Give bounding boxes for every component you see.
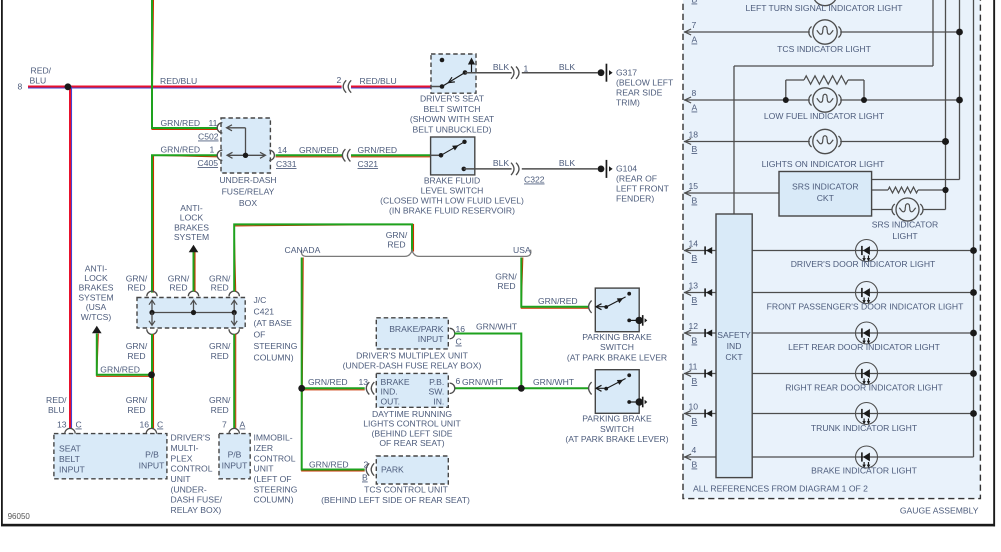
svg-text:CANADA: CANADA (285, 245, 321, 255)
svg-text:UNIT: UNIT (171, 474, 192, 484)
ABS USA arrow (92, 326, 102, 334)
svg-text:BELT UNBUCKLED): BELT UNBUCKLED) (413, 124, 492, 134)
wire row 15 to SRS indicator ckt (684, 192, 779, 194)
svg-text:SWITCH: SWITCH (600, 342, 634, 352)
svg-text:A: A (240, 420, 246, 430)
svg-text:C405: C405 (198, 158, 219, 168)
svg-text:(LEFT OF: (LEFT OF (254, 474, 292, 484)
svg-text:DRIVER'S: DRIVER'S (171, 433, 211, 443)
ground at parking brake switch 2 (636, 398, 643, 405)
junction row 7 (956, 29, 963, 36)
junction resistor left (783, 97, 789, 103)
svg-text:7: 7 (692, 20, 697, 30)
svg-text:1: 1 (210, 145, 215, 155)
svg-text:IZER: IZER (254, 443, 274, 453)
wire RED/BLU to seat belt switch (351, 87, 431, 89)
under-dash fuse/relay box (221, 118, 270, 173)
junction row 13 (970, 289, 977, 296)
svg-text:FENDER): FENDER) (616, 194, 654, 204)
svg-text:GRN/RED: GRN/RED (309, 460, 349, 470)
ground stub (629, 401, 636, 403)
svg-text:(UNDER-DASH FUSE RELAY BOX): (UNDER-DASH FUSE RELAY BOX) (343, 361, 482, 371)
anti-lock brakes system arrow (189, 245, 199, 253)
pin 14 bump (269, 150, 274, 160)
svg-text:13: 13 (689, 281, 699, 291)
wire GRN/RED J/C to pin 16 (153, 334, 155, 429)
J/C bottom pin bump x=152 (147, 329, 157, 334)
svg-text:USA: USA (513, 245, 531, 255)
wire GRN/RED C321 to brake fluid level switch (351, 156, 431, 158)
svg-text:GRN/RED: GRN/RED (299, 145, 339, 155)
contact left (604, 387, 608, 391)
svg-text:INPUT: INPUT (59, 465, 86, 475)
svg-text:ANTI-: ANTI- (85, 263, 108, 273)
internal wire down (245, 128, 247, 156)
wire RED/BLU vertical drop to pin 13 (71, 87, 73, 430)
switch entry stub (431, 86, 442, 88)
junction SRS resistor (942, 187, 948, 193)
arrowhead (685, 248, 691, 254)
svg-text:LOCK: LOCK (180, 213, 204, 223)
svg-text:OUT.: OUT. (381, 396, 401, 406)
LED lamp trunk indicator light (856, 403, 878, 425)
svg-text:LEVEL SWITCH: LEVEL SWITCH (421, 186, 484, 196)
wire row 18 left of lamp (684, 141, 810, 143)
pin 6 bump (450, 383, 455, 393)
svg-text:SYSTEM: SYSTEM (174, 232, 209, 242)
bus wire row18/resistor/SRS lamp (945, 0, 947, 210)
arrowhead (685, 371, 691, 377)
svg-text:7: 7 (222, 420, 227, 430)
svg-text:14: 14 (278, 145, 288, 155)
junction row 10 (970, 410, 977, 417)
svg-text:RED: RED (211, 405, 229, 415)
wire segment (785, 80, 787, 100)
wire row 12 from safety ckt to bus (752, 332, 974, 334)
inline connector 2 (RED/BLU) (343, 80, 346, 92)
wire segment (872, 189, 888, 191)
switch blade (441, 143, 463, 156)
wire row 11 from safety ckt to bus (752, 373, 974, 375)
diode row 11 (704, 369, 706, 377)
switch entry stub (431, 154, 441, 156)
connector parking brake switch 2 (589, 382, 592, 394)
wire SRS lamp right (923, 209, 946, 211)
wire row 10 from safety ckt to bus (752, 413, 974, 415)
contact upper (462, 140, 466, 144)
wire row 14 to safety ind ckt (684, 250, 716, 252)
junction row 14 (970, 247, 977, 254)
wire row 11 to safety ind ckt (684, 373, 716, 375)
svg-text:16: 16 (456, 324, 466, 334)
LED lamp front passenger's door indicator light (856, 282, 878, 304)
svg-text:TRIM): TRIM) (616, 98, 640, 108)
svg-text:TCS CONTROL UNIT: TCS CONTROL UNIT (364, 485, 448, 495)
arrowhead (685, 454, 691, 460)
inline connector C321 (342, 149, 345, 161)
diode row 13 (704, 288, 706, 296)
svg-text:C331: C331 (276, 159, 297, 169)
internal wire pin 11 (227, 127, 246, 129)
svg-text:4: 4 (692, 445, 697, 455)
svg-text:(REAR OF: (REAR OF (616, 174, 657, 184)
svg-text:C: C (456, 337, 462, 347)
connector pin 2 (366, 463, 369, 475)
wire row 7 right of lamp (840, 31, 959, 33)
diode row 12 (704, 329, 706, 337)
ground at parking brake switch 1 (636, 317, 643, 324)
wire BLK from switch (465, 72, 512, 74)
svg-text:C: C (76, 420, 82, 430)
daytime running lights control unit box (376, 373, 448, 407)
svg-text:RED: RED (169, 283, 187, 293)
svg-text:IN.: IN. (433, 396, 444, 406)
svg-text:C: C (157, 420, 163, 430)
svg-text:J/C: J/C (254, 295, 267, 305)
svg-text:LIGHTS ON INDICATOR LIGHT: LIGHTS ON INDICATOR LIGHT (762, 159, 886, 169)
junction row 12 (970, 330, 977, 337)
lamp low fuel indicator light (813, 88, 837, 112)
svg-text:6: 6 (456, 376, 461, 386)
wire BLK from switch (464, 168, 512, 170)
svg-text:A: A (692, 103, 698, 113)
svg-text:15: 15 (689, 181, 699, 191)
svg-text:BLK: BLK (559, 158, 576, 168)
svg-text:GRN/WHT: GRN/WHT (533, 377, 575, 387)
svg-text:RELAY BOX): RELAY BOX) (171, 505, 222, 515)
svg-text:8: 8 (18, 82, 23, 92)
svg-text:RED: RED (497, 281, 515, 291)
svg-text:RED: RED (127, 351, 145, 361)
svg-text:RIGHT REAR DOOR INDICATOR LIGH: RIGHT REAR DOOR INDICATOR LIGHT (785, 383, 943, 393)
box (1, 524, 995, 527)
wire row 8 right of lamp (840, 99, 959, 101)
svg-text:CONTROL: CONTROL (254, 453, 296, 463)
blade arrowhead (617, 298, 624, 303)
immobilizer control unit box (219, 434, 250, 479)
wire row 10 to safety ind ckt (684, 413, 716, 415)
lamp tcs indicator light (813, 20, 837, 44)
svg-text:ANTI-: ANTI- (180, 203, 203, 213)
arrowhead (685, 97, 691, 103)
svg-text:RED: RED (211, 283, 229, 293)
svg-text:TCS INDICATOR LIGHT: TCS INDICATOR LIGHT (777, 44, 871, 54)
svg-text:GAUGE ASSEMBLY: GAUGE ASSEMBLY (900, 506, 979, 516)
arrowhead (685, 290, 691, 296)
entry stub (596, 306, 606, 308)
svg-text:GRN/: GRN/ (126, 341, 148, 351)
svg-text:GRN/: GRN/ (495, 272, 517, 282)
svg-text:GRN/RED: GRN/RED (308, 377, 348, 387)
switch blade (606, 297, 625, 307)
svg-text:B: B (692, 376, 698, 386)
svg-text:GRN/: GRN/ (386, 230, 408, 240)
svg-text:B: B (692, 253, 698, 263)
svg-text:18: 18 (689, 130, 699, 140)
svg-text:RED: RED (127, 283, 145, 293)
svg-text:SW.: SW. (429, 387, 445, 397)
svg-text:RED: RED (211, 351, 229, 361)
svg-text:GRN/RED: GRN/RED (358, 145, 398, 155)
svg-text:LIGHT: LIGHT (892, 231, 918, 241)
svg-text:CKT: CKT (725, 352, 743, 362)
lamp lights on indicator light (813, 129, 837, 153)
contact left (604, 305, 608, 309)
svg-text:BRAKE FLUID: BRAKE FLUID (424, 176, 480, 186)
contact lower (627, 400, 631, 404)
ground G104 (598, 166, 605, 173)
J/C bottom pin bump x=234.2 (229, 329, 239, 334)
J/C top pin bump x=193.5 (188, 291, 198, 296)
svg-text:2: 2 (364, 460, 369, 470)
bus wire row7/row8/SRS ckt (959, 0, 961, 180)
resistor (888, 187, 918, 193)
svg-text:LOCK: LOCK (84, 273, 108, 283)
svg-text:RED: RED (127, 405, 145, 415)
pin 11 bump (217, 123, 222, 133)
brake fluid level switch box (431, 137, 475, 175)
svg-text:(BEHIND LEFT SIDE: (BEHIND LEFT SIDE (371, 428, 452, 438)
svg-text:GRN/: GRN/ (209, 341, 231, 351)
svg-text:1: 1 (524, 64, 529, 74)
svg-text:13: 13 (57, 420, 67, 430)
contact left (439, 153, 444, 158)
ground G317 (598, 69, 605, 76)
diode row 14 (704, 246, 706, 254)
unused contact (440, 58, 445, 63)
svg-text:BLK: BLK (493, 158, 510, 168)
wire SRS lamp left (872, 209, 893, 211)
LED lamp left rear door indicator light (856, 322, 878, 344)
svg-text:A: A (692, 35, 698, 45)
svg-text:BRAKE: BRAKE (381, 377, 410, 387)
switch blade (606, 379, 625, 389)
pin 7 bump (229, 428, 239, 433)
svg-text:B: B (692, 460, 698, 470)
svg-text:P.B.: P.B. (429, 377, 444, 387)
svg-text:B: B (692, 0, 698, 5)
svg-text:LOW FUEL INDICATOR LIGHT: LOW FUEL INDICATOR LIGHT (764, 111, 885, 121)
J/C arrow down (231, 321, 237, 326)
svg-text:ALL REFERENCES FROM DIAGRAM 1: ALL REFERENCES FROM DIAGRAM 1 OF 2 (693, 484, 868, 494)
wire segment (863, 80, 865, 100)
feed wire down to safety ind ckt (733, 66, 735, 214)
SRS indicator ckt box (779, 172, 872, 217)
svg-text:(SHOWN WITH SEAT: (SHOWN WITH SEAT (410, 114, 495, 124)
svg-text:LEFT TURN SIGNAL INDICATOR LIG: LEFT TURN SIGNAL INDICATOR LIGHT (745, 3, 903, 13)
svg-text:BLU: BLU (30, 76, 47, 86)
svg-text:FUSE/RELAY: FUSE/RELAY (222, 187, 275, 197)
arrowhead (685, 190, 691, 196)
inline connector 1 (BLK) (511, 67, 514, 79)
svg-text:STEERING: STEERING (254, 341, 298, 351)
svg-text:13: 13 (359, 377, 369, 387)
svg-text:SWITCH: SWITCH (600, 424, 634, 434)
wire segment (848, 79, 864, 81)
blade arrowhead (448, 77, 455, 82)
resistor (804, 76, 848, 84)
svg-text:PARKING BRAKE: PARKING BRAKE (582, 332, 652, 342)
svg-text:STEERING: STEERING (254, 484, 298, 494)
wire GRN/RED top to C502 pin 11 (152, 0, 218, 130)
svg-text:BELT: BELT (59, 454, 81, 464)
wire GRN/RED C405 pin 1 down to J/C C421 (154, 155, 218, 292)
svg-text:B: B (362, 473, 368, 483)
J/C internal stub up (193, 301, 195, 313)
entry stub (596, 387, 606, 389)
svg-text:10: 10 (689, 402, 699, 412)
J/C internal bus (152, 312, 234, 314)
wire segment (786, 79, 804, 81)
svg-text:16: 16 (140, 420, 150, 430)
svg-text:LIGHTS CONTROL UNIT: LIGHTS CONTROL UNIT (363, 419, 461, 429)
svg-text:(IN BRAKE FLUID RESERVOIR): (IN BRAKE FLUID RESERVOIR) (389, 206, 515, 216)
svg-text:GRN/: GRN/ (126, 395, 148, 405)
svg-text:BLK: BLK (493, 62, 510, 72)
actuator stem (471, 64, 473, 73)
svg-text:C322: C322 (524, 175, 545, 185)
wire row 7 left of lamp (684, 31, 810, 33)
junction row 18 (942, 138, 949, 145)
pin 16 bump (450, 328, 455, 338)
svg-text:RED/: RED/ (31, 66, 52, 76)
feed wire horizontal (734, 65, 933, 67)
wire GRN/WHT pin 6 to parking brake switch 2 (454, 387, 588, 389)
arrowhead (685, 29, 691, 35)
gauge assembly dashed enclosure (683, 0, 980, 499)
svg-text:BLK: BLK (559, 62, 576, 72)
LED lamp right rear door indicator light (856, 363, 878, 385)
svg-text:INPUT: INPUT (139, 460, 166, 470)
J/C internal stub down (151, 313, 153, 326)
junction row 18 bus (942, 138, 949, 145)
svg-text:(AT BASE: (AT BASE (254, 318, 293, 328)
wire row 14 from safety ckt to bus (752, 250, 974, 252)
svg-text:P/B: P/B (145, 450, 159, 460)
svg-text:(BELOW LEFT: (BELOW LEFT (616, 78, 674, 88)
svg-text:B: B (692, 295, 698, 305)
svg-text:PARK: PARK (381, 465, 404, 475)
svg-text:UNDER-DASH: UNDER-DASH (219, 175, 276, 185)
svg-text:LEFT REAR DOOR INDICATOR LIGHT: LEFT REAR DOOR INDICATOR LIGHT (788, 342, 941, 352)
svg-text:BELT SWITCH: BELT SWITCH (424, 104, 481, 114)
svg-text:SRS INDICATOR: SRS INDICATOR (792, 182, 859, 192)
svg-text:14: 14 (689, 239, 699, 249)
J/C internal stub down (233, 313, 235, 326)
svg-text:(CLOSED WITH LOW FLUID LEVEL): (CLOSED WITH LOW FLUID LEVEL) (380, 196, 524, 206)
arrowhead (685, 411, 691, 417)
wire GRN/RED to daytime running lights pin 13 (302, 389, 365, 391)
svg-text:UNIT: UNIT (254, 464, 275, 474)
J/C arrow down (149, 321, 155, 326)
svg-text:FRONT PASSENGER'S DOOR INDICAT: FRONT PASSENGER'S DOOR INDICATOR LIGHT (767, 302, 965, 312)
J/C internal junction (149, 310, 154, 315)
svg-text:C421: C421 (254, 307, 275, 317)
wire BLK to G317 (522, 72, 598, 74)
wire GRN/RED J/C up to CANADA/USA split (234, 224, 413, 291)
safety ind ckt box (716, 214, 752, 478)
svg-text:OF REAR SEAT): OF REAR SEAT) (379, 438, 444, 448)
ground stub (629, 319, 636, 321)
wire segment (918, 189, 946, 191)
wire row 18 right of lamp (840, 141, 945, 143)
svg-text:DAYTIME RUNNING: DAYTIME RUNNING (372, 409, 452, 419)
J/C internal junction (232, 310, 237, 315)
wire GRN/RED branch to ABS USA W/TCS (97, 334, 149, 377)
wire SRS ckt upper feed (872, 179, 960, 181)
svg-text:IMMOBIL-: IMMOBIL- (254, 433, 293, 443)
svg-text:TRUNK INDICATOR LIGHT: TRUNK INDICATOR LIGHT (811, 423, 918, 433)
junction row 8 (956, 97, 963, 104)
svg-text:SEAT: SEAT (59, 444, 82, 454)
diode row 10 (704, 409, 706, 417)
junction GRN/WHT (518, 385, 525, 392)
svg-text:12: 12 (689, 321, 699, 331)
LED lamp brake indicator light (856, 446, 878, 468)
svg-text:PLEX: PLEX (171, 453, 193, 463)
J/C arrow up (149, 300, 155, 305)
pin 13 bump (65, 428, 75, 433)
svg-text:SAFETY: SAFETY (717, 330, 751, 340)
lamp SRS indicator light (896, 198, 919, 221)
junction connector J/C C421 box (137, 298, 245, 329)
svg-text:SRS INDICATOR: SRS INDICATOR (872, 220, 939, 230)
wire GRN/RED pin 14 to C321 (276, 156, 342, 158)
LED lamp driver's door indicator light (856, 240, 878, 262)
svg-text:INPUT: INPUT (222, 460, 249, 470)
svg-text:REAR SIDE: REAR SIDE (616, 87, 663, 97)
svg-text:COLUMN): COLUMN) (254, 495, 294, 505)
driver's seat belt switch box (431, 54, 476, 93)
bus wire door indicator lamps (973, 0, 975, 457)
svg-text:B: B (692, 144, 698, 154)
CANADA/USA split bracket (301, 250, 530, 257)
svg-text:DASH FUSE/: DASH FUSE/ (171, 495, 223, 505)
svg-text:(BEHIND LEFT SIDE OF REAR SEAT: (BEHIND LEFT SIDE OF REAR SEAT) (321, 495, 470, 505)
wire row 12 to safety ind ckt (684, 332, 716, 334)
svg-text:GRN/: GRN/ (209, 395, 231, 405)
pin 1 bump (217, 150, 222, 160)
wire GRN/RED CANADA branch (302, 258, 365, 472)
svg-text:11: 11 (689, 362, 698, 372)
svg-text:BRAKE/PARK: BRAKE/PARK (389, 324, 444, 334)
wire row 13 to safety ind ckt (684, 292, 716, 294)
svg-text:BRAKES: BRAKES (79, 283, 114, 293)
internal arrow pin 11 (227, 125, 233, 131)
blade arrowhead (452, 145, 459, 150)
svg-text:RED/BLU: RED/BLU (160, 76, 197, 86)
inline connector C322 (511, 163, 514, 175)
svg-text:BLU: BLU (48, 405, 65, 415)
J/C internal stub up (233, 301, 235, 313)
bus wire to safety ind ckt feed (932, 0, 934, 66)
junction CANADA branch (298, 385, 305, 392)
arrowhead (685, 330, 691, 336)
svg-text:B: B (692, 336, 698, 346)
svg-text:BRAKES: BRAKES (174, 222, 209, 232)
svg-text:96050: 96050 (8, 512, 31, 521)
junction GRN/RED (148, 371, 155, 378)
actuator arrow up (468, 58, 475, 65)
svg-text:C502: C502 (198, 132, 219, 142)
blade arrowhead (617, 380, 624, 385)
contact common (463, 70, 468, 75)
internal junction (243, 153, 248, 158)
svg-text:P/B: P/B (228, 450, 242, 460)
svg-text:INPUT: INPUT (418, 334, 445, 344)
wire GRN/RED to anti-lock brakes system (194, 252, 196, 291)
svg-text:COLUMN): COLUMN) (254, 353, 294, 363)
